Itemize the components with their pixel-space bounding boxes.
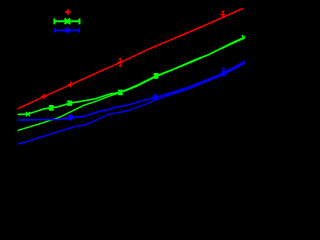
red point marker x=120.2 xyxy=(117,60,123,66)
red data/fit line xyxy=(18,8,244,109)
legend sample: blue errorbar with * marker xyxy=(54,27,79,33)
blue fit line xyxy=(18,63,246,144)
red point marker x=223 xyxy=(220,12,226,18)
plot background xyxy=(0,0,245,182)
green X marker x=51.3 xyxy=(49,106,54,111)
blue * marker x=70.5 xyxy=(68,115,73,121)
green X marker x=120.5 xyxy=(118,90,123,95)
green error bar at x=156 xyxy=(154,74,158,79)
green error bar at x=120.5 xyxy=(119,90,123,94)
green fit line xyxy=(18,38,245,130)
red point marker x=70.7 xyxy=(68,82,74,88)
red error bar at x=223 xyxy=(222,11,225,18)
blue error bar at x=70.5 xyxy=(69,115,73,119)
green error bar at x=69.6 xyxy=(68,101,72,105)
green X marker x=69.6 xyxy=(67,101,72,106)
red error bar at x=120 xyxy=(119,59,122,66)
blue error bar at x=224 xyxy=(222,68,226,76)
green data line xyxy=(18,38,245,115)
red error bar at x=44 xyxy=(43,94,45,98)
blue data line xyxy=(18,61,246,120)
blue * marker x=155 xyxy=(153,95,158,101)
legend sample: green errorbar with X marker xyxy=(54,18,81,24)
green X marker x=28 xyxy=(26,112,30,116)
blue * marker x=224 xyxy=(221,70,226,76)
green X marker x=156 xyxy=(154,74,159,79)
legend sample: red points (+) xyxy=(65,9,71,15)
blue error bar at x=155 xyxy=(153,95,157,100)
green X marker x=244 xyxy=(242,35,245,40)
red point marker x=44 xyxy=(41,94,47,100)
green error bar at x=51.3 xyxy=(50,106,54,110)
